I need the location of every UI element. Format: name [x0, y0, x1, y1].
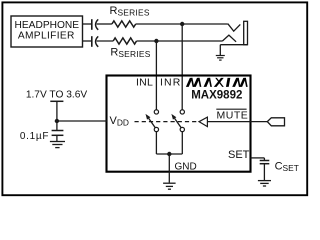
resistor RSERIES bottom: [113, 38, 136, 44]
svg-text:0.1µF: 0.1µF: [20, 131, 49, 142]
svg-text:RSERIES: RSERIES: [110, 5, 150, 18]
svg-text:AMPLIFIER: AMPLIFIER: [18, 31, 75, 42]
node INL junction: [154, 39, 158, 43]
wire switches to gnd rail: [155, 131, 157, 154]
svg-text:SET: SET: [228, 149, 250, 161]
svg-text:RSERIES: RSERIES: [110, 47, 150, 60]
wire INL down: [155, 41, 157, 110]
ground (CSET): [258, 181, 271, 186]
headphone jack J1 tip contact: [228, 24, 241, 32]
node INR junction: [180, 22, 184, 26]
wire supply down: [56, 101, 58, 121]
svg-text:MAX9892: MAX9892: [191, 90, 242, 102]
wire mute to pad: [207, 121, 267, 123]
capacitor 0.1uF: [52, 131, 64, 136]
wire SET pin: [251, 157, 265, 159]
switch S1 (left): [146, 110, 159, 132]
capacitor CSET: [260, 161, 270, 164]
svg-text:MUTE: MUTE: [217, 110, 249, 122]
wire OUTR to coupling cap: [83, 40, 92, 42]
wire cap to resistor: [97, 40, 114, 42]
wire CSET to ground: [263, 164, 265, 181]
wire GND down: [168, 154, 170, 183]
headphone jack J1 ring contact: [222, 35, 236, 42]
IC U1 MAX9892 box: [107, 76, 251, 172]
capacitor C2 (bottom coupling cap): [92, 36, 98, 47]
wire cap to ground: [56, 135, 58, 141]
wire resistor to jack tip: [136, 23, 228, 25]
svg-text:INL: INL: [136, 77, 153, 89]
svg-text:HEADPHONE: HEADPHONE: [15, 20, 80, 31]
dashed mute control line: [135, 121, 200, 123]
wire cap to resistor: [97, 23, 112, 25]
ground (bypass cap): [50, 142, 65, 148]
resistor RSERIES top: [112, 21, 136, 27]
MAXIM logo: [186, 78, 248, 87]
headphone jack plug body: [244, 21, 248, 44]
capacitor C1 (top coupling cap): [92, 19, 98, 30]
wire INR down: [181, 24, 183, 110]
node VDD junction: [55, 119, 59, 123]
wire VDD to IC: [57, 120, 107, 122]
wire OUTL to coupling cap: [83, 23, 92, 25]
figure border frame: [2, 2, 307, 195]
wire resistor to jack ring: [137, 40, 223, 42]
wire jack sleeve to ground: [219, 45, 221, 56]
svg-text:1.7V TO 3.6V: 1.7V TO 3.6V: [26, 90, 88, 101]
jack sleeve wire: [220, 44, 247, 46]
svg-text:VDD: VDD: [110, 115, 129, 128]
switch S2 (right): [171, 110, 184, 132]
mute buffer triangle: [199, 117, 207, 127]
svg-text:INR: INR: [160, 77, 181, 89]
svg-text:GND: GND: [175, 162, 197, 173]
svg-text:CSET: CSET: [275, 160, 299, 173]
node GND junction: [167, 152, 171, 156]
ground (jack): [216, 56, 225, 61]
headphone amplifier block U2: [11, 16, 83, 47]
supply rail terminal: [50, 100, 63, 102]
wire junction to bypass cap: [56, 121, 58, 130]
MUTE input pad: [267, 118, 284, 126]
ground (GND pin): [163, 183, 176, 189]
